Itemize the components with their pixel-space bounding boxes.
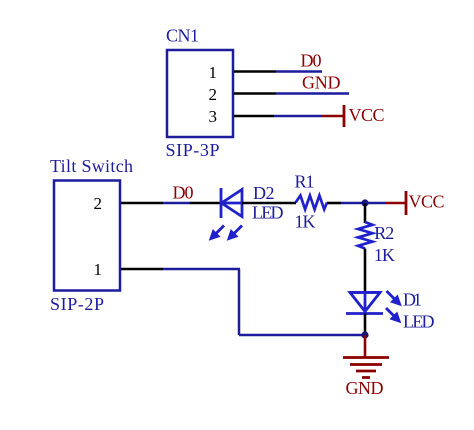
svg-text:R2: R2 (374, 223, 394, 243)
svg-text:D0: D0 (173, 183, 194, 203)
svg-text:2: 2 (94, 194, 103, 213)
svg-text:3: 3 (209, 107, 218, 126)
wire R1 to node (341, 202, 365, 205)
wire node to VCC (365, 202, 385, 205)
R1 right pin (327, 202, 341, 205)
wire net GND from CN1 pin 2 (276, 92, 349, 95)
junction node A (361, 199, 368, 206)
wire vertical drop (238, 269, 241, 335)
svg-text:D0: D0 (301, 51, 322, 71)
CN1 pin 1 (234, 70, 276, 73)
svg-text:2: 2 (209, 85, 218, 104)
LED D2 internal axis line (221, 202, 242, 205)
resistor R2 (358, 222, 373, 249)
LED D1 internal axis line (364, 292, 367, 312)
svg-text:SIP-3P: SIP-3P (166, 140, 220, 160)
resistor R1 (296, 196, 327, 210)
ground symbol GND (343, 335, 389, 398)
connector CN1 body (167, 50, 233, 137)
LED D2 triangle (222, 190, 243, 217)
wire net D0 (middle) (163, 202, 190, 205)
Tilt Switch pin 1 (121, 268, 163, 271)
wire net D0 from CN1 pin 1 (276, 70, 322, 73)
svg-text:1K: 1K (374, 245, 395, 265)
LED D1 light arrow 2 (386, 308, 401, 323)
wire from CN1 pin 3 to VCC (274, 115, 322, 118)
svg-text:VCC: VCC (409, 192, 445, 212)
junction node B (361, 331, 368, 338)
svg-text:GND: GND (346, 378, 384, 398)
power symbol VCC (right) (385, 191, 445, 215)
svg-text:LED: LED (252, 203, 284, 223)
LED D1 cathode bar (346, 312, 383, 315)
LED D1 triangle (350, 293, 380, 312)
svg-text:D2: D2 (253, 183, 275, 203)
D1 bottom pin (364, 314, 367, 336)
svg-text:1: 1 (209, 63, 218, 82)
svg-text:Tilt Switch: Tilt Switch (50, 156, 133, 176)
svg-text:R1: R1 (295, 172, 315, 192)
CN1 pin 2 (234, 92, 276, 95)
Tilt Switch pin 2 (121, 202, 163, 205)
svg-text:1: 1 (94, 260, 103, 279)
power symbol VCC (top) (322, 105, 385, 127)
LED D2 light arrow 1 (210, 226, 225, 241)
wire node to R2 (364, 203, 367, 223)
svg-text:SIP-2P: SIP-2P (50, 294, 104, 314)
svg-text:CN1: CN1 (166, 26, 199, 46)
svg-text:GND: GND (302, 73, 341, 93)
diode D2 right pin / wire to R1 (242, 202, 296, 205)
svg-text:D1: D1 (403, 290, 422, 310)
connector Tilt Switch body (54, 181, 120, 291)
diode D2 left pin (190, 202, 221, 205)
LED D2 cathode bar (220, 188, 223, 218)
svg-text:1K: 1K (295, 211, 316, 231)
LED D2 light arrow 2 (228, 226, 243, 241)
svg-text:LED: LED (403, 311, 435, 331)
LED D1 light arrow 1 (387, 291, 402, 306)
CN1 pin 3 (234, 115, 274, 118)
svg-text:VCC: VCC (349, 105, 385, 125)
wire tilt pin1 horizontal (163, 268, 240, 271)
R2 bottom pin / wire to D1 (364, 249, 367, 293)
LED D1 anode bar (top) (349, 291, 381, 294)
wire bottom horizontal to node (239, 334, 365, 337)
